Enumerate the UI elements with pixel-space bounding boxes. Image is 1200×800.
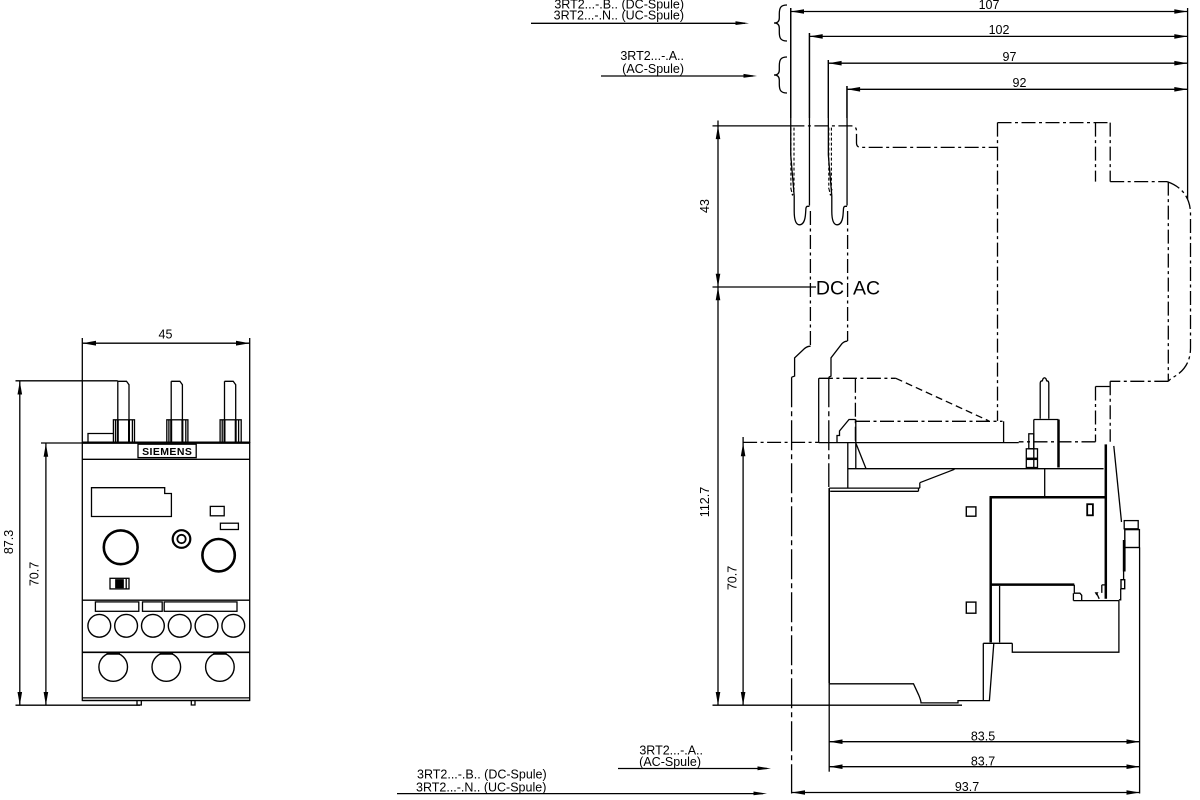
svg-text:70.7: 70.7	[726, 566, 740, 590]
dim 45 line	[82, 342, 249, 344]
svg-text:3RT2...-.B.. (DC-Spule): 3RT2...-.B.. (DC-Spule)	[417, 768, 547, 782]
left step on top	[88, 434, 113, 443]
right columns	[1139, 548, 1141, 794]
display window	[92, 488, 172, 517]
center adjuster	[173, 530, 191, 548]
relay left edge	[828, 488, 830, 684]
svg-text:92: 92	[1013, 76, 1027, 90]
contactor outline (phantom)	[790, 126, 997, 147]
wedge flange	[829, 469, 954, 491]
right knob	[202, 539, 234, 571]
svg-text:87.3: 87.3	[2, 530, 16, 554]
svg-text:45: 45	[159, 328, 173, 342]
right slant profile	[1114, 446, 1122, 522]
svg-text:DC: DC	[816, 278, 844, 300]
pin centerlines	[810, 211, 847, 346]
dim 45 extension lines	[82, 338, 249, 443]
relay top edge	[819, 442, 1019, 444]
divider	[82, 651, 249, 653]
top dimension 102	[809, 23, 1187, 118]
test switch	[110, 578, 129, 589]
coil pin 1 solid	[791, 8, 810, 225]
feet	[137, 701, 195, 706]
small squares	[966, 507, 976, 516]
terminal circles row	[88, 614, 245, 637]
top dimension 92	[847, 76, 1188, 118]
svg-text:107: 107	[979, 0, 1000, 12]
svg-text:(AC-Spule): (AC-Spule)	[622, 62, 684, 76]
svg-text:70.7: 70.7	[28, 562, 42, 586]
svg-text:(AC-Spule): (AC-Spule)	[639, 755, 701, 769]
extension lines horizontal	[16, 381, 141, 705]
dim 45 arrows	[82, 341, 96, 346]
top dimension 97	[828, 50, 1187, 118]
top-left label AC-Spule	[601, 49, 757, 78]
lower right box	[1012, 601, 1119, 653]
top-left label DC/UC-Spule	[531, 0, 749, 25]
small rect A	[210, 506, 224, 515]
coil pin phantom variant (dashed)	[791, 128, 832, 196]
dim 70.7 line	[45, 444, 47, 706]
relay towers	[792, 346, 811, 377]
coil pin 2 solid	[828, 60, 847, 225]
bottom label DC/UC-Spule	[397, 768, 767, 796]
bottom label AC-Spule	[618, 743, 771, 770]
bottom band	[82, 698, 249, 701]
body outline	[82, 443, 249, 701]
brace DC/UC	[774, 5, 787, 41]
top dimension 107	[791, 0, 1188, 199]
brace AC	[774, 57, 787, 93]
svg-text:3RT2...-.N.. (UC-Spule): 3RT2...-.N.. (UC-Spule)	[416, 781, 546, 795]
inner box thick	[990, 420, 1106, 643]
plug assembly	[1040, 378, 1049, 419]
lower terminal area	[82, 599, 249, 601]
pin 2	[171, 381, 182, 420]
svg-text:97: 97	[1003, 50, 1017, 64]
left dimension 70.7	[726, 437, 746, 705]
big circles	[99, 653, 234, 682]
bottom dimension 93.7	[792, 780, 1140, 795]
svg-text:SIEMENS: SIEMENS	[142, 446, 192, 458]
SIEMENS label	[82, 458, 249, 460]
svg-text:93.7: 93.7	[955, 780, 979, 794]
bottom dimension 83.5	[829, 684, 1140, 772]
svg-text:83.5: 83.5	[971, 729, 995, 743]
pin 3	[225, 381, 236, 420]
relay latch top-left	[837, 420, 856, 470]
left dimension 112.7	[698, 287, 720, 705]
pin 1	[118, 381, 129, 420]
dim 87.3 line	[19, 381, 21, 705]
svg-text:3RT2...-.N.. (UC-Spule): 3RT2...-.N.. (UC-Spule)	[554, 9, 684, 23]
left knob	[104, 530, 138, 564]
left dimension 43	[698, 121, 720, 706]
svg-text:3RT2...-.A..: 3RT2...-.A..	[620, 49, 684, 63]
notch cluster	[1073, 585, 1119, 601]
body top edge thick	[82, 442, 249, 444]
svg-text:83.7: 83.7	[971, 754, 995, 768]
svg-text:112.7: 112.7	[698, 487, 712, 517]
relay bottom left outline	[829, 643, 1012, 703]
svg-text:43: 43	[698, 199, 712, 213]
small rect B	[220, 523, 238, 529]
extension lines	[713, 126, 963, 705]
svg-text:AC: AC	[853, 278, 880, 300]
svg-text:102: 102	[989, 23, 1010, 37]
bottom dimension 83.7	[829, 754, 1140, 769]
